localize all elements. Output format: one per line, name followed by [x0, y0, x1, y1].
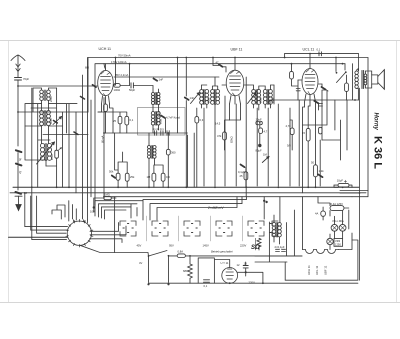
svg-text:UBF 11: UBF 11	[324, 265, 328, 275]
dashed dots 5	[251, 224, 261, 233]
resistor R50k	[116, 173, 120, 180]
wire switch feeds top	[52, 201, 88, 223]
capacitor blob arrow	[53, 117, 62, 125]
capacitor blob 47nF	[161, 116, 165, 118]
resistor pill v320	[319, 127, 322, 134]
ground arrow earth	[16, 196, 21, 210]
svg-text:1nF: 1nF	[190, 96, 195, 100]
resistor R-osc	[55, 150, 59, 158]
wire	[154, 165, 163, 187]
capacitor blob 47n	[322, 87, 326, 90]
capacitor C-couple	[296, 89, 300, 91]
wire v340	[322, 120, 341, 160]
junction dot	[265, 201, 267, 203]
potentiometer arrow 1M	[262, 157, 269, 163]
junction dot m2	[17, 111, 19, 113]
svg-text:80μF: 80μF	[256, 149, 263, 153]
wafer divider	[210, 216, 212, 241]
resistor R25k	[125, 173, 129, 181]
DASHED-SWITCH-BANK	[120, 221, 278, 236]
svg-text:360: 360	[171, 151, 176, 155]
wire	[115, 133, 128, 187]
wire	[255, 197, 302, 262]
svg-text:4A: 4A	[315, 212, 318, 216]
wire grid UBF	[213, 58, 226, 73]
loudspeaker LS	[372, 70, 385, 90]
page border right	[396, 41, 398, 303]
svg-text:1000: 1000	[157, 111, 161, 117]
svg-text:UBF 11: UBF 11	[231, 47, 243, 51]
svg-text:SΩ: SΩ	[251, 245, 260, 251]
capacitor C-ant 70pF	[15, 78, 22, 81]
capacitor C10nF pill	[256, 121, 262, 124]
coil L3b oscillator	[47, 144, 51, 161]
wire	[167, 133, 169, 187]
junction dot c8	[185, 186, 187, 188]
tube UBF11 top pin	[234, 58, 236, 70]
capacitor C4n a	[155, 131, 157, 136]
svg-text:10μF: 10μF	[337, 179, 344, 183]
capacitor blob	[112, 176, 115, 178]
core lines	[362, 71, 364, 89]
resistor R-g UCL	[290, 71, 294, 79]
wire left col verticals	[83, 58, 105, 221]
wire	[245, 168, 247, 188]
junction dot c7	[167, 186, 169, 188]
svg-text:10nF: 10nF	[256, 117, 262, 121]
fuse 0,8A	[177, 254, 185, 258]
resistor R470k	[290, 128, 294, 135]
page border bottom	[0, 302, 400, 304]
junction dot b8	[291, 63, 293, 65]
svg-text:82kΩ: 82kΩ	[230, 136, 234, 143]
wire	[17, 166, 19, 190]
svg-text:4V: 4V	[139, 261, 142, 265]
label box VR3	[334, 239, 343, 247]
svg-text:1nF: 1nF	[159, 78, 164, 82]
coil L9b	[257, 89, 261, 104]
wire elbow set left	[25, 187, 68, 239]
core T7	[204, 90, 205, 105]
resistor 1M pill	[104, 197, 111, 200]
capacitor C1 blob	[16, 150, 23, 161]
junction dot b2	[177, 57, 179, 59]
svg-text:4,7: 4,7	[264, 130, 268, 134]
wire bus L2	[10, 192, 366, 194]
wafer divider	[178, 216, 180, 241]
fuse 0,4A 125V pill	[330, 206, 344, 211]
junction dot m7	[354, 99, 356, 101]
svg-text:50: 50	[311, 161, 314, 165]
wire v187	[188, 133, 195, 187]
enclosure verticals	[198, 258, 214, 283]
dashed row unit 5	[248, 221, 264, 236]
resistor R360	[166, 149, 170, 155]
core lines T2	[44, 111, 46, 126]
trimmer arrow	[248, 93, 257, 104]
svg-text:0,4A 125V: 0,4A 125V	[331, 202, 344, 206]
junction dot p1	[189, 255, 191, 257]
svg-text:1000: 1000	[50, 154, 54, 160]
dashed dots 1	[123, 224, 133, 233]
core T10	[267, 90, 268, 105]
tube UCL11 envelope	[302, 69, 318, 95]
coil secondary	[364, 74, 367, 85]
svg-text:100: 100	[90, 210, 95, 214]
trimmer arrow T3	[37, 142, 55, 164]
tube UCH11 left pin	[93, 85, 97, 87]
svg-text:UCH 11: UCH 11	[99, 47, 112, 51]
svg-text:50: 50	[24, 191, 27, 195]
tube UCL11 top pin	[309, 54, 311, 69]
wire	[292, 64, 299, 90]
resistor R25b	[244, 172, 248, 180]
coil L7a	[200, 89, 204, 104]
terminal dot	[147, 283, 149, 285]
capacitor blob 1nF on B3	[154, 79, 158, 81]
wire	[42, 101, 49, 111]
lamp left	[331, 224, 338, 231]
coil L8b	[216, 90, 220, 105]
svg-text:0,3: 0,3	[200, 118, 204, 122]
wire lamp links	[323, 207, 349, 250]
wire	[98, 112, 127, 133]
wire	[120, 85, 129, 87]
resistor R47k	[223, 132, 227, 140]
coil L4a	[152, 93, 155, 105]
wire elbow nest right	[94, 197, 247, 220]
svg-text:70V 50mA: 70V 50mA	[118, 54, 131, 58]
junction dot c2	[56, 186, 58, 188]
wire	[196, 108, 198, 187]
svg-text:5/8: 5/8	[287, 144, 291, 148]
wire v347	[346, 100, 348, 150]
junction dot c3	[68, 186, 70, 188]
svg-text:25k: 25k	[130, 175, 135, 179]
junction dot c10	[245, 186, 247, 188]
wire grid feed	[18, 85, 93, 87]
core lines T3	[45, 144, 47, 161]
junction dot	[93, 206, 95, 208]
capacitor C4n b	[161, 131, 163, 136]
svg-text:47: 47	[216, 61, 219, 65]
junction dot m3	[154, 132, 156, 134]
core lines T1	[44, 90, 46, 101]
capacitor blob	[314, 101, 318, 104]
svg-text:4,7nF Kond: 4,7nF Kond	[166, 116, 180, 120]
capacitor grid blob	[93, 85, 97, 87]
wire bus B1 left drop	[87, 58, 89, 113]
svg-text:25: 25	[113, 119, 116, 123]
svg-text:12: 12	[237, 263, 240, 267]
svg-text:Betrieb geschaltet: Betrieb geschaltet	[211, 250, 233, 254]
coil L9a	[252, 90, 256, 105]
junction dot b1	[115, 57, 117, 59]
wire v115	[115, 58, 117, 86]
svg-text:47k: 47k	[217, 134, 222, 138]
svg-text:0,8A: 0,8A	[178, 250, 184, 254]
svg-text:220V: 220V	[249, 281, 255, 285]
tube UCL11 left pin	[298, 79, 302, 81]
svg-text:4n 4n 0,1: 4n 4n 0,1	[153, 127, 165, 131]
wire UCL top drops	[285, 54, 336, 72]
wire dash feeds	[115, 197, 137, 253]
wire	[149, 133, 155, 187]
junction dot p4	[359, 192, 361, 194]
svg-text:50pF: 50pF	[129, 88, 135, 92]
wire right links	[334, 185, 368, 197]
svg-text:15: 15	[302, 131, 305, 135]
svg-text:14,5: 14,5	[215, 122, 221, 126]
wire elbows right of switch	[90, 223, 127, 243]
wire bus B2	[104, 63, 345, 65]
wire B2 hook	[104, 64, 106, 69]
resistor zigzag a	[257, 238, 261, 250]
capacitor blob v320	[318, 175, 322, 178]
tone switch S2	[336, 71, 347, 82]
wire	[298, 84, 328, 100]
coil L7b	[205, 90, 209, 105]
dashed dots 3	[187, 224, 197, 233]
wire v104	[103, 98, 105, 197]
wire mains line	[169, 255, 303, 257]
svg-text:0,1: 0,1	[204, 284, 208, 288]
svg-text:Horny: Horny	[373, 113, 379, 131]
svg-text:3000: 3000	[49, 118, 53, 124]
junction dot b7	[129, 63, 131, 65]
coil L6a	[147, 145, 150, 158]
dashed dots 2	[155, 224, 165, 233]
wire diagonal from switch	[80, 245, 149, 256]
capacitor blob	[74, 132, 78, 135]
junction dot b4	[234, 57, 236, 59]
resistor R01	[125, 116, 129, 125]
wire v177	[177, 58, 179, 134]
electrolytic cap 80uF	[258, 144, 261, 147]
wire v186	[185, 58, 187, 97]
coil L1a	[40, 90, 44, 101]
dashed row unit 3	[184, 221, 200, 236]
wire y133	[104, 132, 188, 134]
junction dot c11	[277, 186, 279, 188]
core lines T4	[155, 93, 156, 105]
wire bus B1	[88, 58, 368, 197]
resistor R-tone	[345, 83, 349, 91]
svg-text:145V: 145V	[203, 244, 209, 248]
wire v335	[303, 91, 335, 130]
tube UBF11 left pin	[222, 84, 226, 86]
coil L10b	[269, 89, 273, 104]
coil L4b	[157, 93, 160, 105]
svg-text:0,1: 0,1	[130, 118, 134, 122]
svg-text:880: 880	[85, 67, 90, 70]
wire v130	[129, 64, 131, 86]
fuse 4A pill	[321, 211, 326, 216]
capacitor pair 2x01	[276, 249, 286, 251]
coil L10a	[263, 89, 267, 104]
wire UCL bottom drops	[305, 102, 316, 107]
wire	[259, 125, 261, 144]
junction dot c9	[214, 186, 216, 188]
svg-text:0002: 0002	[208, 97, 211, 103]
choke coil a	[272, 223, 276, 237]
capacitor 10	[243, 266, 248, 268]
junction dot b10	[309, 53, 311, 55]
core lines T5	[155, 112, 156, 126]
capacitor C-earth 50	[15, 192, 22, 196]
junction dot c1	[31, 186, 33, 188]
wire	[185, 101, 187, 188]
svg-text:2×468 mV: 2×468 mV	[207, 206, 224, 210]
coil L8a	[211, 90, 215, 105]
tube UCL11 electrodes	[305, 70, 315, 95]
junction dot p3	[262, 282, 264, 284]
core lines T6	[151, 146, 152, 159]
resistor R1M	[152, 173, 156, 181]
capacitor blob 47	[219, 64, 223, 66]
junction dot b5	[284, 57, 286, 59]
svg-text:70pF: 70pF	[23, 77, 29, 81]
svg-text:UCH 11: UCH 11	[307, 265, 311, 275]
coil primary	[355, 71, 359, 89]
switch contact arrows	[58, 148, 62, 151]
capacitor C01	[167, 131, 169, 136]
wire	[238, 262, 263, 283]
resistor R-scr	[306, 128, 310, 141]
wire	[346, 75, 348, 100]
junction dot p2	[229, 282, 231, 284]
tube UBF11 bottom pins	[230, 96, 241, 121]
capacitor blob 1nF	[185, 98, 189, 100]
svg-text:170V 120mA: 170V 120mA	[111, 60, 127, 64]
svg-text:0001: 0001	[160, 118, 163, 124]
wire	[290, 120, 292, 150]
svg-text:K 36 L: K 36 L	[372, 136, 384, 169]
tube UY11 top pin	[214, 260, 229, 268]
wire	[225, 120, 230, 150]
svg-text:85V 2,2mA: 85V 2,2mA	[115, 73, 129, 77]
wire chassis bus	[13, 186, 359, 188]
terminal dot	[167, 283, 169, 285]
wire	[17, 153, 19, 164]
page border top	[0, 40, 400, 42]
junction dot	[263, 200, 265, 202]
junction dot	[245, 271, 247, 273]
core T9	[256, 90, 257, 105]
junction dot b3	[212, 57, 214, 59]
resistor R03b	[161, 173, 165, 181]
wire tuner horizontals	[18, 88, 88, 166]
resistor R12k	[314, 165, 318, 177]
trimmer arrow	[191, 93, 200, 104]
svg-text:2000: 2000	[49, 96, 53, 102]
wafer divider	[146, 216, 148, 241]
svg-text:680: 680	[183, 269, 188, 273]
tube UCH11 right pin	[114, 84, 116, 86]
wire	[248, 85, 274, 110]
junction dot c14	[342, 186, 344, 188]
wire v302	[303, 107, 305, 193]
resistor R25	[118, 116, 122, 124]
wire bottom line	[149, 282, 358, 284]
dashed row unit 2	[152, 221, 168, 236]
junction dot c4	[103, 196, 105, 198]
dashed row unit 4	[216, 221, 232, 236]
lamp right	[339, 224, 346, 231]
tube UBF11 electrodes	[230, 71, 241, 96]
wire v165	[165, 118, 167, 133]
coil L3a oscillator	[40, 144, 44, 161]
wire bus L3	[104, 196, 352, 198]
svg-text:60mA: 60mA	[101, 136, 105, 143]
junction dot b6	[335, 57, 337, 59]
svg-text:4,7k: 4,7k	[286, 124, 292, 128]
dashed dots 6	[270, 224, 276, 233]
resistor R-cath	[104, 104, 108, 112]
svg-text:0003: 0003	[271, 97, 274, 103]
svg-text:U Y 11: U Y 11	[221, 261, 229, 265]
switch contact arrows	[73, 219, 85, 223]
dashed row unit 6	[272, 221, 278, 236]
wire	[153, 89, 159, 133]
lamp lower	[327, 238, 333, 244]
junction dot c6	[148, 186, 150, 188]
wire coil links	[33, 88, 42, 90]
coil L2a	[40, 111, 44, 126]
junction dot m8	[342, 63, 344, 65]
capacitor blob 0,1uF	[241, 165, 245, 168]
coil L1b	[47, 90, 51, 101]
mains switch blade	[148, 251, 170, 257]
wire v322	[320, 90, 325, 186]
wafer divider	[242, 216, 244, 241]
junction dot m4	[167, 132, 169, 134]
svg-text:45V: 45V	[137, 244, 142, 248]
junction dot m1	[17, 85, 19, 87]
svg-text:220V: 220V	[240, 244, 246, 248]
choke core	[274, 215, 280, 244]
tube UBF11 right pin	[244, 84, 248, 86]
wire	[308, 106, 310, 187]
capacitor C 50pF	[131, 83, 133, 88]
wire bottom right	[285, 233, 358, 280]
resistor R-anode 100	[114, 84, 120, 88]
wire HT bus v359	[359, 54, 360, 281]
electrolytic 10uF pill	[338, 180, 349, 187]
junction dot c13	[315, 186, 317, 188]
svg-text:100Ω: 100Ω	[114, 88, 121, 92]
capacitor C040	[319, 52, 321, 56]
heater resistor loops	[303, 250, 339, 254]
junction dot m6	[259, 122, 261, 124]
resistor R03	[195, 117, 199, 123]
svg-text:UCL 11: UCL 11	[315, 265, 319, 275]
choke coil b	[278, 223, 282, 237]
svg-text:0001: 0001	[260, 97, 263, 103]
wire v315	[316, 103, 319, 164]
wire transformer	[357, 69, 372, 101]
wire antenna down	[17, 80, 19, 146]
wire to IF coil	[133, 86, 153, 93]
svg-text:0,3: 0,3	[166, 175, 170, 179]
coil L5b	[157, 111, 160, 125]
wire	[202, 77, 218, 186]
junction dot c12	[307, 186, 309, 188]
antenna symbol	[11, 55, 25, 77]
wire fuse link	[344, 207, 349, 209]
svg-text:UCL 11: UCL 11	[303, 47, 315, 51]
tube UBF11 envelope	[226, 70, 244, 96]
